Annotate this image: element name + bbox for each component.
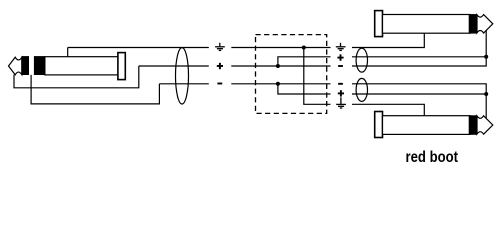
mono jack plug P2 back end lug xyxy=(375,11,383,37)
plus symbol top right xyxy=(337,54,343,60)
junction dot on plus line xyxy=(276,64,280,68)
wire: P1 tip down and right xyxy=(14,66,139,88)
plus symbol bottom right xyxy=(338,90,344,96)
P2 tip chevron xyxy=(477,15,493,33)
wire: minus line mid segment xyxy=(231,83,330,85)
wire: minus branch down to bottom jack plus xyxy=(278,84,331,94)
cable ellipse top right xyxy=(356,48,367,72)
wire: plus line mid segment xyxy=(231,65,330,67)
wire: ground branch down to bottom jack ground xyxy=(304,48,331,105)
svg-text:red boot: red boot xyxy=(406,149,459,166)
wire: ground line left segment xyxy=(68,47,209,49)
wire: minus line right segment up to top jack tip xyxy=(352,30,486,66)
P3 tip chevron xyxy=(477,116,493,134)
minus symbol top right xyxy=(338,65,343,67)
P1 back end lug xyxy=(118,53,125,80)
ground symbol top right xyxy=(336,43,346,51)
cable ellipse left xyxy=(176,48,189,104)
wire: ground line right segment to top jack sleeve xyxy=(352,33,424,47)
wire: plus line left segment xyxy=(139,65,209,67)
junction dot on ground line xyxy=(302,46,306,50)
wire: ground line mid segment xyxy=(231,47,330,49)
P1 tip-ring insulator band xyxy=(21,56,29,75)
wire: P1 sleeve up xyxy=(67,48,69,57)
wire: plus line right segment to top jack tip junction xyxy=(352,56,486,58)
wire: plus branch up to top jack plus xyxy=(278,57,331,66)
plus symbol left xyxy=(217,63,223,69)
wire: plus line bottom right segment xyxy=(352,93,486,95)
minus symbol bottom right xyxy=(338,83,343,85)
wire: ground line bottom right segment to bottom jack sleeve xyxy=(352,104,424,116)
mono jack plug P3 back end lug xyxy=(375,112,383,138)
P2 insulator band xyxy=(469,14,477,33)
junction box dashed xyxy=(256,35,327,114)
wire: P1 ring down and right xyxy=(31,75,159,104)
P2 sleeve barrel xyxy=(383,15,471,34)
stereo jack plug P1 tip chevron xyxy=(9,57,22,75)
junction dot bottom jack tip xyxy=(484,92,488,96)
junction dot top jack tip xyxy=(484,55,488,59)
cable ellipse bottom right xyxy=(356,78,367,101)
junction dot on minus line xyxy=(276,82,280,86)
ground symbol bottom right xyxy=(336,97,346,108)
P1 ring-sleeve insulator band xyxy=(34,56,45,75)
P1 sleeve barrel xyxy=(45,57,118,75)
P3 sleeve barrel xyxy=(383,116,471,135)
ground symbol left xyxy=(215,43,225,51)
wire: minus line left segment xyxy=(159,83,208,85)
minus symbol left xyxy=(217,83,222,85)
P3 insulator band xyxy=(469,115,477,135)
wire: minus line bottom right segment down to bottom jack tip xyxy=(352,84,486,118)
